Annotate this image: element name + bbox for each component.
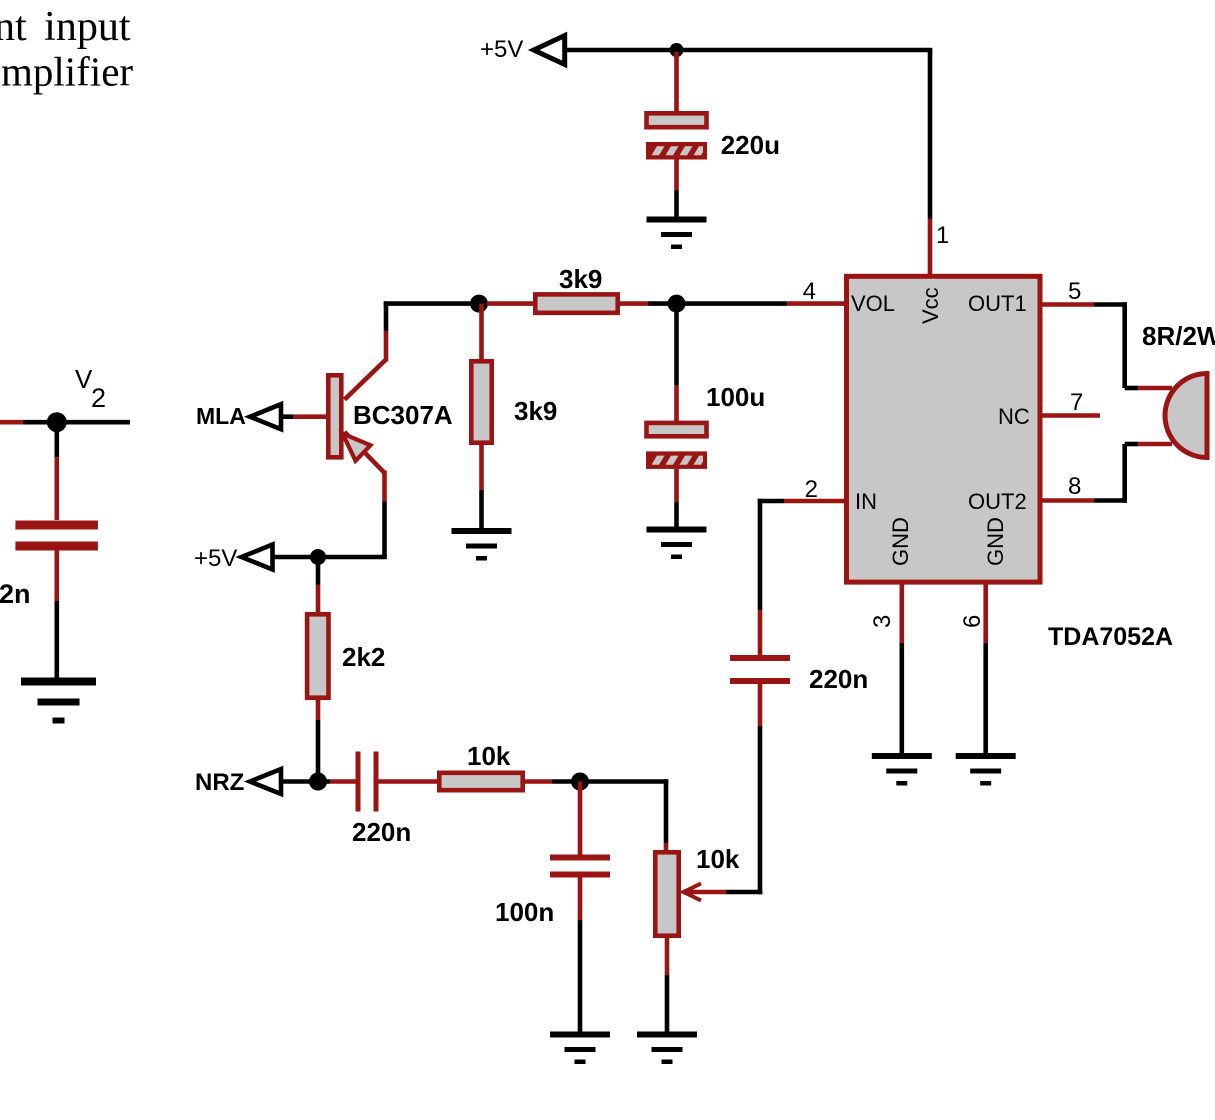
svg-text:3k9: 3k9 bbox=[559, 264, 602, 294]
svg-text:3k9: 3k9 bbox=[514, 396, 557, 426]
svg-text:220u: 220u bbox=[721, 130, 780, 160]
svg-text:OUT2: OUT2 bbox=[968, 489, 1027, 514]
svg-text:1: 1 bbox=[936, 222, 949, 249]
svg-text:IN: IN bbox=[855, 489, 877, 514]
svg-text:GND: GND bbox=[888, 517, 913, 566]
svg-text:100u: 100u bbox=[706, 382, 765, 412]
svg-text:100n: 100n bbox=[495, 897, 554, 927]
svg-text:nt input: nt input bbox=[0, 4, 131, 50]
svg-text:NC: NC bbox=[998, 404, 1030, 429]
svg-text:3: 3 bbox=[869, 615, 896, 628]
svg-text:220n: 220n bbox=[352, 817, 411, 847]
svg-text:10k: 10k bbox=[696, 844, 740, 874]
svg-text:8R/2W: 8R/2W bbox=[1142, 321, 1215, 351]
svg-text:MLA: MLA bbox=[196, 403, 246, 429]
svg-text:Vcc: Vcc bbox=[918, 287, 943, 324]
svg-text:8: 8 bbox=[1068, 473, 1081, 500]
svg-text:220n: 220n bbox=[809, 664, 868, 694]
svg-text:BC307A: BC307A bbox=[353, 400, 453, 430]
svg-text:5: 5 bbox=[1068, 278, 1081, 305]
svg-text:TDA7052A: TDA7052A bbox=[1048, 623, 1173, 651]
svg-text:2n: 2n bbox=[0, 579, 31, 609]
svg-text:2: 2 bbox=[91, 383, 106, 413]
svg-text:+5V: +5V bbox=[194, 545, 237, 572]
svg-text:10k: 10k bbox=[467, 741, 511, 771]
svg-text:7: 7 bbox=[1070, 389, 1083, 416]
svg-text:4: 4 bbox=[803, 278, 816, 305]
svg-text:2: 2 bbox=[805, 476, 818, 503]
svg-text:6: 6 bbox=[959, 615, 986, 628]
svg-text:NRZ: NRZ bbox=[195, 769, 244, 796]
svg-text:VOL: VOL bbox=[851, 291, 895, 316]
svg-text:2k2: 2k2 bbox=[342, 642, 385, 672]
svg-text:OUT1: OUT1 bbox=[968, 291, 1027, 316]
svg-text:+5V: +5V bbox=[480, 36, 523, 63]
svg-text:mplifier: mplifier bbox=[1, 49, 133, 95]
svg-text:GND: GND bbox=[983, 517, 1008, 566]
